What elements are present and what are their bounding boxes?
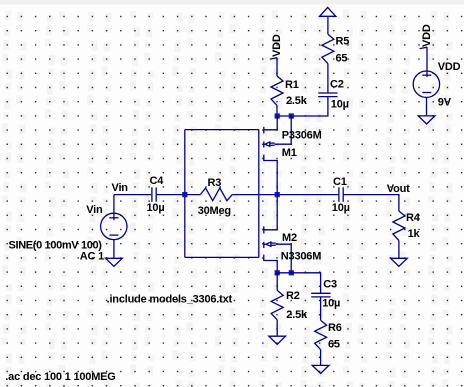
wire C4 to junction [156,194,200,196]
resistor R5 [322,34,334,63]
svg-text:.include models_3306.txt: .include models_3306.txt [107,293,233,305]
svg-text:2.5k: 2.5k [286,309,308,321]
svg-text:C4: C4 [150,175,165,187]
resistor R3 [200,188,232,201]
svg-text:Vin: Vin [86,204,103,216]
svg-text:9V: 9V [438,96,452,108]
svg-text:VDD: VDD [271,34,283,57]
junction drains [275,192,280,197]
wire C2 bottom to node [277,97,328,116]
junction lower right [289,270,294,275]
svg-text:N3306M: N3306M [281,251,321,263]
svg-text:1k: 1k [408,228,421,240]
svg-text:R1: R1 [285,79,299,91]
svg-text:R5: R5 [336,36,350,48]
svg-text:C1: C1 [333,176,347,188]
wire R1 to node [276,105,278,116]
wire loop bottom [185,256,259,258]
wire C3 to R6 [320,297,322,320]
gate wire vertical [258,130,260,258]
svg-text:VDD: VDD [438,61,461,73]
wire loop top [185,129,259,131]
wire node to R2 [276,273,278,291]
junction upper left [275,113,280,118]
resistor R1 [271,76,283,105]
ground R6 [312,365,329,373]
svg-text:VDD: VDD [421,24,433,47]
wire lower node to C3 [277,273,320,294]
svg-text:30Meg: 30Meg [198,205,231,217]
svg-text:P3306M: P3306M [282,129,322,141]
wire R5 top [327,16,329,34]
svg-text:10µ: 10µ [322,298,340,310]
wire R6 to ground [320,350,322,366]
capacitor C1 [339,187,343,202]
svg-text:R6: R6 [328,322,342,334]
svg-text:2.5k: 2.5k [286,95,308,107]
resistor R4 [393,211,405,241]
svg-text:Vout: Vout [387,183,410,195]
svg-text:65: 65 [336,52,348,64]
svg-text:10µ: 10µ [331,99,349,111]
VDD flag left (rotated text) [270,34,283,59]
svg-text:AC 1: AC 1 [80,250,104,262]
svg-text:.ac dec 100 1 100MEG: .ac dec 100 1 100MEG [5,371,115,383]
capacitor C4 [152,187,156,202]
transistor M2 (NMOS N3306M) [264,195,291,273]
ground R2 [269,336,286,344]
resistor R2 [271,290,283,319]
svg-text:C3: C3 [323,279,337,291]
ground Vin [106,258,123,266]
svg-text:10µ: 10µ [147,202,165,214]
junction C4/R3 [182,192,187,197]
voltage source Vin [101,195,127,259]
svg-text:Vin: Vin [112,182,129,194]
wire R5 to C2 [327,64,329,93]
wire VDD to R1 [276,58,278,76]
svg-text:R2: R2 [286,290,300,302]
wire R4 to ground [398,241,400,259]
ground VDD source [418,116,435,124]
junction lower left [275,270,280,275]
svg-text:M2: M2 [282,232,297,244]
svg-text:R3: R3 [208,177,222,189]
wire C1 to Vout [343,195,399,211]
voltage source VDD [413,47,439,116]
wire R3 to C1 [232,194,339,196]
wire Vin to C4 [114,194,151,196]
wire R2 to ground [276,320,278,336]
capacitor C3 [311,293,330,297]
capacitor C2 [318,93,337,97]
svg-text:C2: C2 [330,79,344,91]
svg-text:R4: R4 [406,212,421,224]
VDD flag right (rotated text) [420,24,433,48]
resistor R6 [315,320,327,349]
VDD flag triangle above R5 [320,7,336,16]
junction upper right [289,113,294,118]
svg-text:10µ: 10µ [332,202,350,214]
wire loop left [184,130,186,258]
transistor M1 (PMOS P3306M) [264,116,291,195]
svg-text:65: 65 [328,338,340,350]
svg-text:M1: M1 [282,147,297,159]
ground R4 [391,258,408,266]
